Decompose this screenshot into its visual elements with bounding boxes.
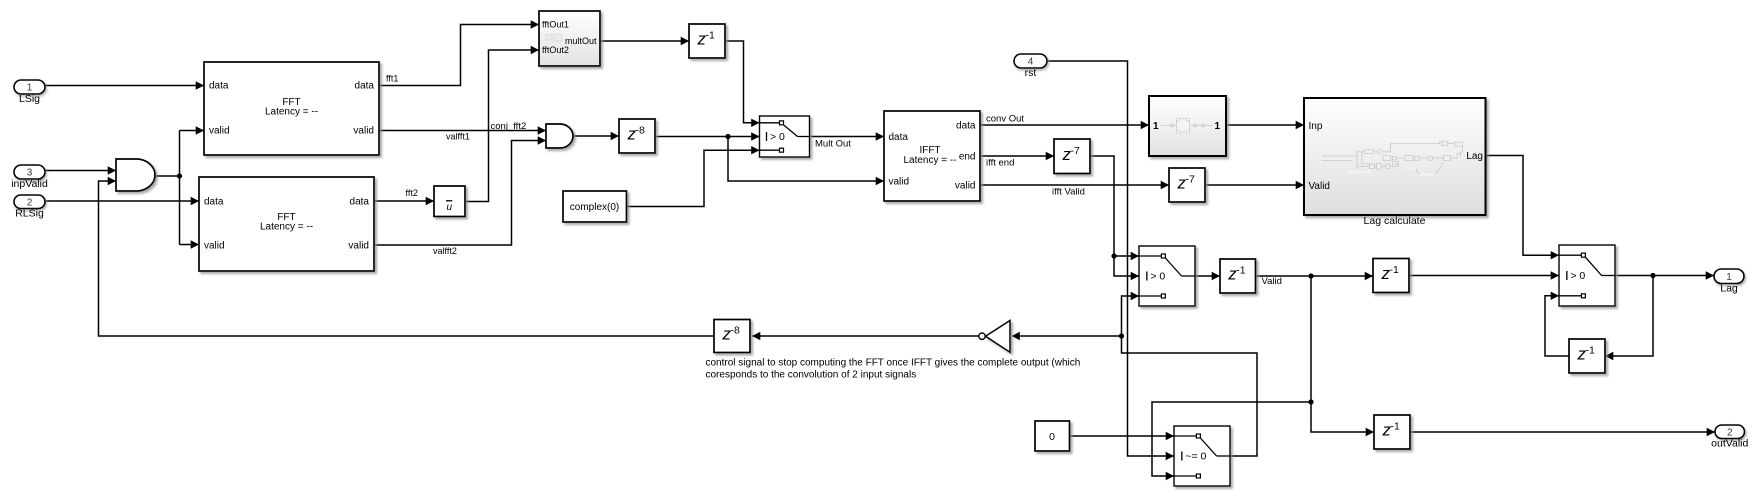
svg-text:Lag calculate: Lag calculate [1364, 215, 1426, 227]
svg-text:1: 1 [27, 83, 33, 94]
svg-text:conv Out: conv Out [986, 114, 1024, 125]
svg-text:conj_fft2: conj_fft2 [491, 121, 527, 132]
svg-text:valid: valid [204, 241, 225, 252]
svg-text:fftOut1: fftOut1 [542, 20, 569, 30]
svg-text:Lag: Lag [1466, 151, 1483, 162]
svg-text:inpValid: inpValid [11, 178, 48, 190]
svg-text:Inp: Inp [1309, 121, 1323, 132]
svg-text:Mult Out: Mult Out [815, 139, 851, 150]
svg-text:valid: valid [889, 177, 910, 188]
svg-text:end: end [959, 152, 976, 163]
svg-text:Valid: Valid [1309, 181, 1331, 192]
svg-text:1: 1 [1153, 121, 1159, 132]
svg-text:valid: valid [209, 126, 230, 137]
svg-text:outValid: outValid [1711, 438, 1748, 450]
svg-text:> 0: > 0 [770, 131, 785, 143]
svg-text:ifft Valid: ifft Valid [1052, 187, 1085, 198]
svg-text:Latency = --: Latency = -- [903, 155, 956, 166]
svg-text:valfft1: valfft1 [446, 132, 470, 142]
svg-text:data: data [956, 121, 976, 132]
svg-text:data: data [209, 81, 229, 92]
svg-text:> 0: > 0 [1570, 270, 1585, 282]
svg-text:control signal to stop computi: control signal to stop computing the FFT… [706, 358, 1081, 369]
svg-text:~= 0: ~= 0 [1185, 451, 1206, 463]
svg-text:rst: rst [1025, 67, 1037, 79]
svg-text:-1: -1 [1586, 345, 1595, 357]
svg-text:data: data [889, 132, 909, 143]
svg-text:-8: -8 [731, 325, 740, 337]
svg-text:> 0: > 0 [1150, 271, 1165, 283]
svg-text:data: data [350, 197, 370, 208]
svg-text:u: u [447, 202, 453, 213]
svg-text:fft1: fft1 [386, 74, 398, 84]
svg-text:valid: valid [955, 181, 976, 192]
svg-text:-1: -1 [1236, 265, 1245, 277]
svg-text:RLSig: RLSig [15, 208, 44, 220]
svg-text:0: 0 [1049, 431, 1055, 443]
svg-text:-7: -7 [1071, 145, 1080, 157]
svg-text:complex(0): complex(0) [570, 202, 619, 213]
svg-text:data: data [204, 197, 224, 208]
svg-text:-1: -1 [706, 30, 715, 42]
svg-text:1: 1 [1726, 272, 1732, 283]
svg-text:3: 3 [27, 168, 33, 179]
svg-text:-7: -7 [1186, 174, 1195, 186]
svg-text:LSig: LSig [19, 93, 40, 105]
svg-text:Latency = --: Latency = -- [265, 107, 318, 118]
svg-text:valid: valid [348, 241, 369, 252]
svg-text:valfft2: valfft2 [433, 246, 457, 256]
svg-text:-8: -8 [636, 125, 645, 137]
svg-text:coresponds to the convolution: coresponds to the convolution of 2 input… [706, 370, 917, 381]
svg-text:1: 1 [1214, 121, 1220, 132]
svg-text:fftOut2: fftOut2 [542, 45, 569, 55]
svg-text:Lag: Lag [1720, 283, 1738, 295]
svg-text:Valid: Valid [1262, 276, 1282, 287]
svg-text:fft2: fft2 [406, 188, 418, 198]
svg-text:data: data [355, 81, 375, 92]
svg-text:multOut: multOut [565, 36, 597, 46]
svg-text:-1: -1 [1391, 421, 1400, 433]
svg-text:-1: -1 [1390, 264, 1399, 276]
svg-text:valid: valid [353, 126, 374, 137]
svg-text:4: 4 [1028, 57, 1034, 68]
svg-text:Latency = --: Latency = -- [260, 222, 313, 233]
svg-text:ifft end: ifft end [986, 158, 1014, 169]
